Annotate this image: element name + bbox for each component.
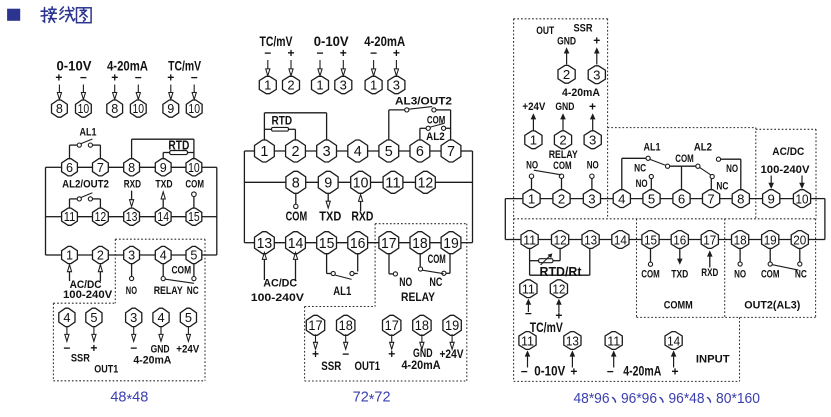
svg-text:COM: COM [553,160,572,172]
svg-text:18: 18 [734,232,747,247]
svg-text:COM: COM [171,265,191,277]
svg-text:AL1: AL1 [80,127,97,139]
svg-text:−: − [264,46,271,60]
svg-text:10: 10 [188,102,200,116]
svg-text:7: 7 [447,144,455,160]
svg-text:+24V: +24V [440,349,464,361]
svg-text:COM: COM [675,153,694,165]
svg-text:−: − [525,307,532,321]
svg-text:NO: NO [587,159,599,171]
svg-text:NC: NC [795,268,807,280]
svg-text:1: 1 [66,249,73,263]
svg-text:AL1: AL1 [333,284,351,298]
svg-text:AC/DC: AC/DC [263,278,297,290]
svg-text:3: 3 [340,78,347,93]
svg-text:COM: COM [427,114,445,126]
svg-text:13: 13 [126,210,138,224]
svg-text:19: 19 [445,318,459,333]
svg-text:−: − [80,71,87,85]
svg-text:3: 3 [130,310,137,325]
svg-text:14: 14 [667,333,680,348]
svg-text:−: − [191,71,198,85]
svg-text:NO: NO [399,275,412,289]
svg-text:2: 2 [558,191,565,206]
svg-text:11: 11 [522,281,535,296]
svg-text:1: 1 [316,78,323,93]
svg-text:4-20mA: 4-20mA [562,87,600,99]
svg-text:11: 11 [64,210,76,224]
svg-text:RELAY: RELAY [154,285,184,297]
svg-text:RXD: RXD [124,179,141,191]
svg-text:2: 2 [97,249,104,263]
svg-text:7: 7 [97,161,104,175]
svg-text:8: 8 [56,102,63,116]
svg-text:3: 3 [323,144,331,160]
svg-text:NO: NO [734,268,746,280]
svg-text:SSR: SSR [71,353,90,365]
svg-text:10: 10 [133,102,145,116]
svg-text:100-240V: 100-240V [251,292,305,304]
svg-text:96*48: 96*48 [669,391,705,407]
svg-text:INPUT: INPUT [696,353,730,365]
svg-text:48*96: 48*96 [574,391,610,407]
svg-text:4: 4 [63,310,70,325]
svg-text:12: 12 [554,232,567,247]
svg-text:16: 16 [673,232,686,247]
svg-text:18: 18 [412,236,428,252]
svg-text:OUT2(AL3): OUT2(AL3) [744,300,800,312]
svg-text:OUT: OUT [536,25,554,37]
svg-text:1: 1 [260,144,268,160]
svg-text:19: 19 [764,232,777,247]
svg-text:15: 15 [644,232,657,247]
svg-text:RTD/Rt: RTD/Rt [540,264,583,279]
svg-text:72*72: 72*72 [353,390,391,409]
svg-text:COM: COM [185,179,204,191]
svg-text:NC: NC [187,285,199,297]
svg-text:13: 13 [257,236,273,252]
svg-text:COM: COM [428,252,446,266]
svg-text:17: 17 [385,318,399,333]
svg-text:NO: NO [636,178,648,190]
svg-text:4: 4 [354,144,362,160]
svg-text:100-240V: 100-240V [63,289,113,301]
svg-text:−: − [130,341,137,355]
svg-text:AL2: AL2 [694,142,712,154]
svg-text:RTD: RTD [168,139,189,153]
svg-text:+24V: +24V [522,101,546,113]
svg-text:TC/mV: TC/mV [530,320,563,335]
svg-text:10: 10 [353,175,369,191]
svg-text:NC: NC [634,163,646,175]
svg-text:4: 4 [160,249,167,263]
svg-text:8: 8 [737,191,744,206]
svg-text:RXD: RXD [701,267,718,279]
svg-text:1: 1 [370,78,377,93]
svg-text:11: 11 [521,333,534,348]
svg-text:5: 5 [185,310,192,325]
svg-text:COM: COM [641,269,660,281]
svg-text:RELAY: RELAY [549,149,579,161]
svg-text:100-240V: 100-240V [761,164,811,176]
svg-text:6: 6 [416,144,424,160]
svg-text:3: 3 [593,67,600,82]
svg-text:14: 14 [288,236,304,252]
svg-text:COM: COM [286,210,308,224]
svg-text:14: 14 [614,232,627,247]
svg-text:+: + [589,100,596,114]
svg-text:12: 12 [95,210,107,224]
svg-text:4: 4 [157,310,164,325]
svg-text:15: 15 [319,236,335,252]
svg-text:−: − [370,46,377,60]
svg-text:−: − [63,341,70,355]
svg-text:NC: NC [716,180,728,192]
svg-text:5: 5 [190,249,197,263]
svg-text:17: 17 [703,232,716,247]
svg-text:TXD: TXD [671,269,688,281]
svg-text:−: − [342,347,349,361]
svg-text:SSR: SSR [574,23,593,35]
svg-text:8: 8 [111,102,118,116]
svg-text:48*48: 48*48 [110,390,148,409]
svg-text:17: 17 [381,236,397,252]
svg-text:10: 10 [78,102,90,116]
svg-text:GND: GND [555,101,574,113]
svg-text:COM: COM [761,268,780,280]
svg-text:−: − [607,365,614,379]
svg-text:GND: GND [557,36,576,48]
svg-text:5: 5 [648,191,655,206]
svg-text:3: 3 [588,191,595,206]
svg-text:17: 17 [308,318,322,333]
svg-text:20: 20 [793,232,806,247]
svg-text:AL1: AL1 [644,142,661,154]
svg-text:11: 11 [523,232,536,247]
svg-text:3: 3 [393,78,400,93]
svg-text:12: 12 [418,175,434,191]
svg-text:14: 14 [157,210,169,224]
svg-text:1: 1 [530,133,537,148]
svg-text:2: 2 [291,144,299,160]
svg-text:OUT1: OUT1 [355,361,381,373]
svg-text:+: + [340,46,347,60]
svg-text:+: + [312,347,319,361]
svg-text:+: + [167,71,174,85]
svg-text:9: 9 [768,191,775,206]
svg-text:11: 11 [607,333,620,348]
svg-text:+: + [55,71,62,85]
svg-text:4-20mA: 4-20mA [402,360,441,372]
svg-text:AL2/OUT2: AL2/OUT2 [62,179,109,191]
svg-text:+: + [90,341,97,355]
svg-text:−: − [135,71,142,85]
svg-text:8: 8 [128,161,135,175]
svg-text:8: 8 [292,175,300,191]
svg-text:GND: GND [413,348,433,360]
svg-text:+: + [287,46,294,60]
svg-text:NO: NO [726,163,738,175]
svg-text:+24V: +24V [176,344,200,356]
svg-text:1: 1 [528,191,535,206]
svg-text:13: 13 [584,232,597,247]
svg-text:RXD: RXD [351,210,373,224]
svg-text:1: 1 [264,78,271,93]
svg-text:11: 11 [385,175,401,191]
svg-text:3: 3 [128,249,135,263]
svg-text:SSR: SSR [321,361,342,373]
svg-text:7: 7 [707,191,714,206]
svg-text:2: 2 [287,78,294,93]
svg-text:12: 12 [552,281,565,296]
svg-text:NO: NO [526,159,538,171]
svg-text:9: 9 [160,161,167,175]
svg-text:6: 6 [66,161,73,175]
svg-text:+: + [388,347,395,361]
svg-text:TXD: TXD [319,210,341,224]
svg-text:OUT1: OUT1 [94,364,118,376]
svg-text:3: 3 [589,133,596,148]
svg-text:4: 4 [618,191,625,206]
svg-text:−: − [316,46,323,60]
svg-text:16: 16 [350,236,366,252]
svg-text:TXD: TXD [155,179,172,191]
svg-text:AL2: AL2 [426,131,445,143]
svg-text:9: 9 [167,102,174,116]
svg-text:0-10V: 0-10V [534,364,565,379]
svg-text:6: 6 [678,191,685,206]
svg-text:10: 10 [796,191,809,206]
svg-text:+: + [593,34,600,48]
svg-text:5: 5 [90,310,97,325]
svg-text:19: 19 [443,236,459,252]
svg-text:COMM: COMM [664,300,693,312]
svg-text:18: 18 [415,318,429,333]
svg-text:+: + [393,46,400,60]
svg-text:10: 10 [188,161,200,175]
svg-text:2: 2 [563,67,570,82]
svg-text:+: + [671,365,678,379]
svg-text:RELAY: RELAY [401,290,435,304]
svg-text:RTD: RTD [272,114,293,128]
svg-text:AL3/OUT2: AL3/OUT2 [395,96,452,108]
svg-text:−: − [521,365,528,379]
svg-text:96*96: 96*96 [621,391,657,407]
svg-text:80*160: 80*160 [716,391,760,407]
svg-text:4-20mA: 4-20mA [623,364,661,379]
svg-text:+: + [570,365,577,379]
svg-text:9: 9 [324,175,332,191]
svg-text:+: + [111,71,118,85]
svg-text:18: 18 [339,318,353,333]
svg-text:2: 2 [559,133,566,148]
svg-text:15: 15 [188,210,200,224]
svg-text:NC: NC [429,275,442,289]
svg-text:4-20mA: 4-20mA [133,355,171,367]
svg-text:NO: NO [126,285,138,297]
svg-text:5: 5 [385,144,393,160]
svg-text:13: 13 [566,333,579,348]
svg-text:AC/DC: AC/DC [772,146,804,158]
